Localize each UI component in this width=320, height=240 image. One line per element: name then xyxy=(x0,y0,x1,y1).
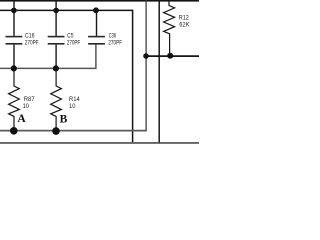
svg-text:270PF: 270PF xyxy=(25,39,39,46)
svg-text:R14: R14 xyxy=(69,96,80,103)
svg-text:10: 10 xyxy=(69,103,76,110)
svg-text:R87: R87 xyxy=(24,96,35,103)
svg-text:R12: R12 xyxy=(179,14,189,21)
svg-text:B: B xyxy=(60,113,68,125)
svg-text:A: A xyxy=(17,113,26,125)
svg-text:270PF: 270PF xyxy=(67,39,81,46)
svg-text:10: 10 xyxy=(23,103,30,110)
svg-text:62K: 62K xyxy=(179,22,190,29)
svg-text:270PF: 270PF xyxy=(108,39,122,46)
